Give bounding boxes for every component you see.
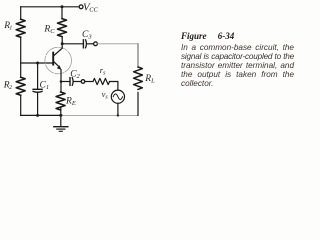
transistor Q1 base bar bbox=[52, 53, 54, 65]
junction dots bbox=[36, 5, 119, 117]
wire rs to source bbox=[110, 82, 118, 91]
wire RE to rail bbox=[60, 108, 62, 115]
transistor Q1 collector bbox=[54, 44, 62, 56]
svg-text:vs: vs bbox=[102, 89, 109, 101]
node output terminal after C3 bbox=[94, 42, 98, 46]
svg-text:C3: C3 bbox=[82, 30, 92, 41]
resistor RC bbox=[58, 19, 67, 37]
wire collector node to C3 bbox=[62, 43, 82, 45]
wire Rc to collector node bbox=[61, 37, 63, 44]
wire emitter node to C2 bbox=[61, 81, 69, 83]
wire RL column bottom bbox=[137, 92, 139, 115]
capacitor C1 plates bbox=[33, 88, 42, 90]
svg-text:RL: RL bbox=[144, 74, 155, 85]
svg-text:R2: R2 bbox=[3, 81, 12, 91]
resistor R1 bbox=[16, 19, 25, 37]
capacitor C2 bbox=[69, 78, 71, 86]
node source rail junction bbox=[117, 114, 119, 116]
wire bottom rail right (faded) bbox=[62, 114, 137, 116]
svg-text:rs: rs bbox=[100, 65, 106, 77]
svg-text:R1: R1 bbox=[3, 21, 12, 31]
node C1 rail junction bbox=[36, 114, 39, 117]
caption text block bbox=[181, 32, 294, 88]
node base-C1 junction bbox=[36, 62, 39, 65]
svg-text:C2: C2 bbox=[70, 70, 80, 81]
svg-text:VCC: VCC bbox=[83, 2, 98, 14]
capacitor C1 leads bbox=[37, 63, 39, 89]
wire left column upper bbox=[20, 7, 22, 19]
ground bars bbox=[54, 126, 68, 128]
svg-text:RC: RC bbox=[43, 25, 55, 36]
wire base bbox=[21, 62, 53, 64]
terminal Vcc bbox=[79, 5, 83, 9]
wire C3 terminal to RL (faded) bbox=[98, 43, 139, 45]
transistor Q1 emitter bbox=[54, 62, 59, 67]
wire left column mid bbox=[20, 37, 22, 77]
transistor Q1 emitter arrow bbox=[57, 65, 62, 70]
wire RL column top bbox=[137, 44, 139, 67]
resistor RE lead bbox=[60, 82, 62, 93]
source vs circle bbox=[111, 90, 124, 103]
node emitter junction bbox=[60, 80, 63, 83]
wire Rc column top bbox=[61, 7, 63, 19]
svg-text:C1: C1 bbox=[40, 81, 50, 92]
wire bottom rail left bbox=[21, 114, 62, 116]
wire top rail bbox=[21, 6, 79, 8]
resistor R2 bbox=[16, 77, 25, 95]
source vs sine bbox=[113, 94, 122, 100]
wire left column lower bbox=[20, 95, 22, 115]
resistor rs bbox=[93, 78, 110, 84]
capacitor C3 bbox=[82, 40, 84, 48]
resistor RE bbox=[56, 92, 65, 110]
wire terminal to rs bbox=[85, 81, 93, 83]
svg-text:RE: RE bbox=[65, 97, 76, 108]
wire source to bottom rail bbox=[117, 103, 119, 115]
transistor Q1 circle bbox=[45, 47, 72, 74]
node ground rail junction bbox=[59, 114, 62, 117]
node Rc top rail junction bbox=[61, 5, 64, 8]
ground stem bbox=[60, 115, 62, 126]
node collector junction bbox=[61, 42, 64, 45]
resistor RL bbox=[134, 67, 143, 89]
node input terminal before C2 source side bbox=[81, 80, 85, 84]
